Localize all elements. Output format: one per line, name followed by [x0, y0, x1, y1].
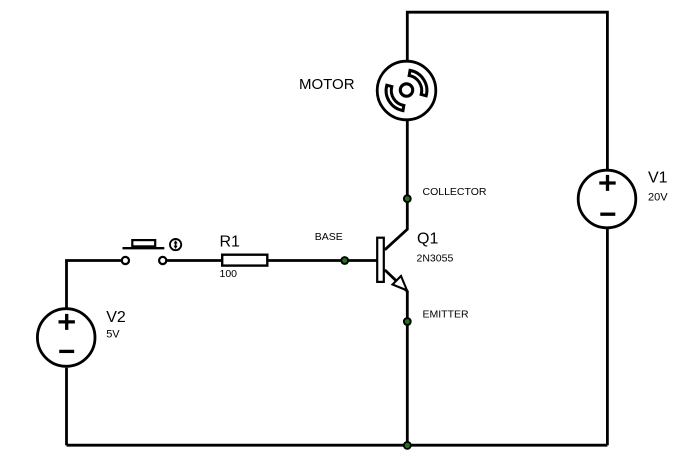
wire from R1 to transistor base [269, 259, 377, 262]
pushbutton switch S1 button cap [132, 240, 155, 246]
svg-text:V1: V1 [648, 170, 668, 187]
junction node at emitter [403, 317, 412, 326]
svg-text:MOTOR: MOTOR [299, 76, 355, 93]
voltage source V1 body [578, 170, 636, 228]
svg-text:5V: 5V [106, 329, 120, 341]
V2 plus sign [59, 314, 75, 330]
V1 minus sign [600, 213, 615, 216]
motor M1 shaft circle [400, 84, 412, 96]
motor M1 lower-left rotor arc [386, 85, 404, 110]
svg-text:20V: 20V [648, 191, 668, 203]
resistor R1 body [222, 255, 267, 266]
motor M1 outer body [377, 61, 436, 120]
transistor Q1 base bar [377, 238, 384, 282]
pushbutton switch S1 actuator bar [123, 247, 165, 249]
wire from V2 plus up and right to switch left terminal [67, 261, 122, 308]
wire collector from transistor up to motor [385, 121, 408, 250]
svg-text:100: 100 [220, 268, 238, 280]
wire left side from bottom rail up to V2 minus [65, 368, 68, 445]
wire from V1 minus down right side to bottom rail [606, 228, 609, 445]
wire from switch right terminal to R1 [167, 259, 222, 262]
svg-text:Q1: Q1 [417, 231, 438, 248]
wire top from motor to top-right corner to V1 plus terminal [407, 12, 607, 170]
junction node at collector [403, 194, 412, 203]
svg-text:COLLECTOR: COLLECTOR [423, 186, 487, 198]
junction node at base [340, 256, 349, 265]
pushbutton switch S1 left terminal [122, 257, 129, 264]
pushbutton switch S1 right terminal [159, 257, 166, 264]
svg-text:EMITTER: EMITTER [423, 309, 469, 321]
voltage source V2 body [37, 309, 95, 367]
wire bottom rail [67, 444, 608, 447]
svg-text:V2: V2 [106, 309, 126, 326]
V1 plus sign [599, 175, 615, 191]
junction node at bottom rail [403, 441, 412, 450]
svg-text:R1: R1 [220, 234, 241, 251]
wire emitter from transistor down to bottom rail [385, 270, 408, 445]
V2 minus sign [59, 350, 74, 353]
svg-text:2N3055: 2N3055 [417, 252, 454, 264]
transistor Q1 emitter arrow [393, 276, 408, 290]
svg-text:BASE: BASE [315, 231, 343, 243]
motor M1 upper-right rotor arc [409, 70, 427, 95]
pushbutton switch S1 press indicator circle with up-down arrow [170, 239, 181, 250]
